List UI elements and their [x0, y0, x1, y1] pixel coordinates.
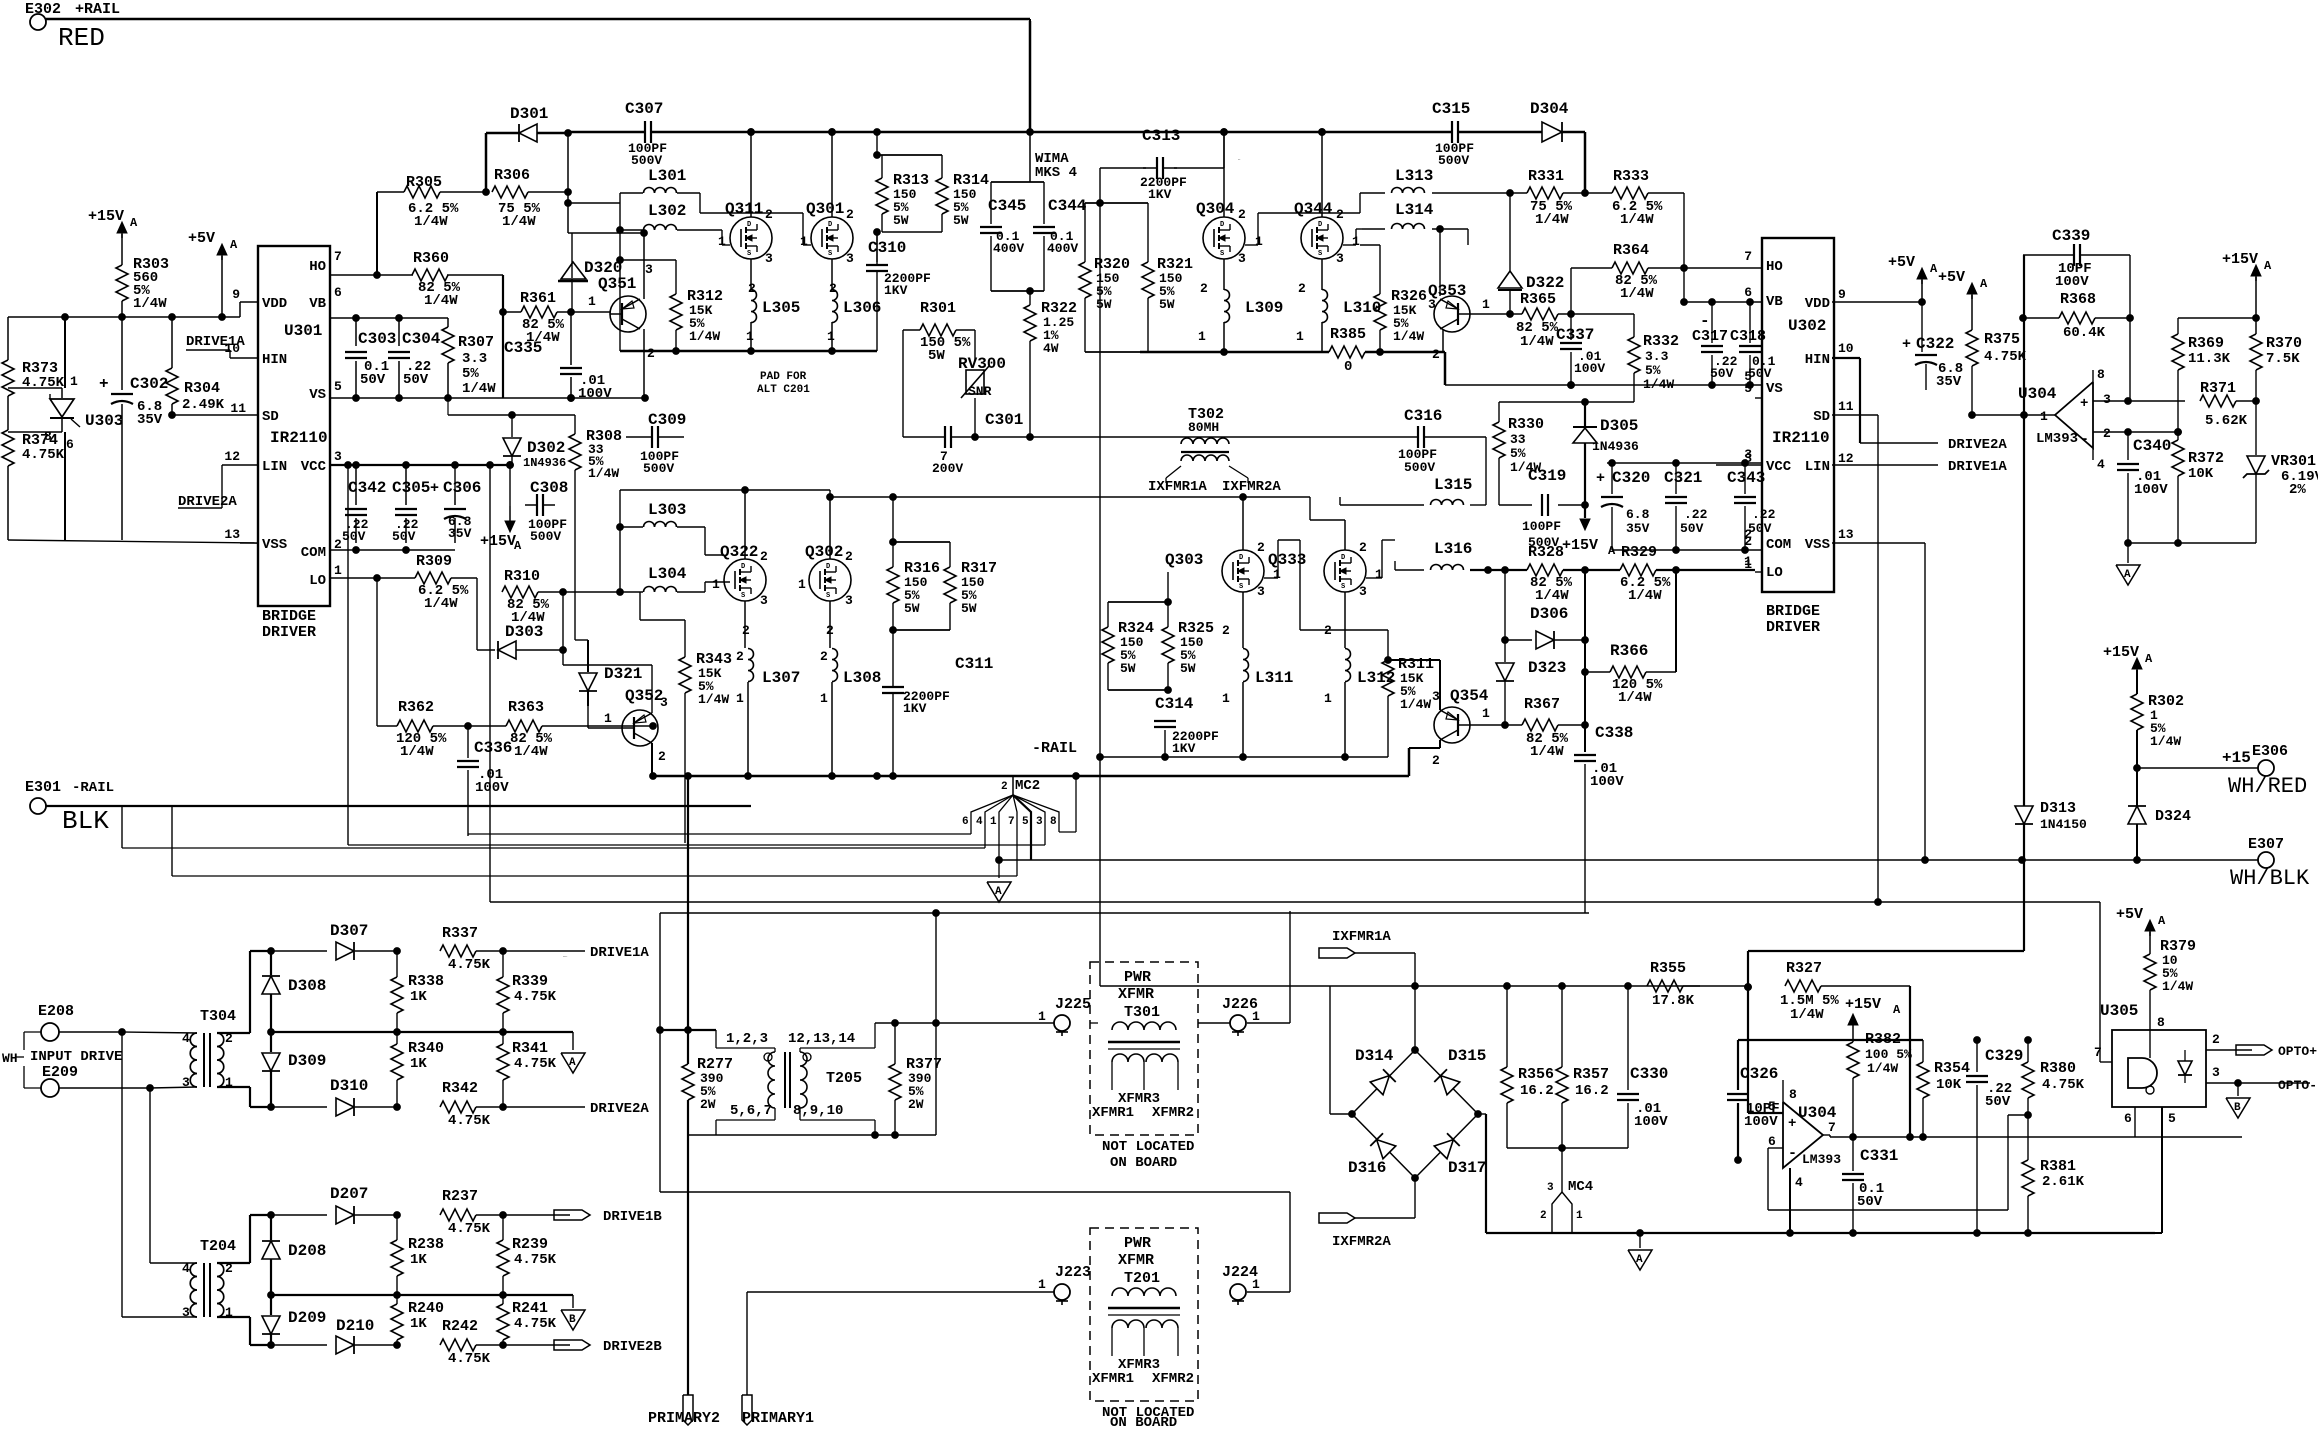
svg-text:L305: L305	[762, 299, 800, 317]
svg-text:MC2: MC2	[1015, 778, 1040, 794]
svg-text:1: 1	[1576, 1210, 1583, 1222]
svg-text:D321: D321	[604, 665, 642, 683]
svg-text:R306: R306	[494, 167, 530, 184]
svg-text:5: 5	[1022, 816, 1029, 828]
svg-text:3: 3	[645, 262, 653, 277]
svg-text:1/4W: 1/4W	[1530, 744, 1564, 760]
svg-text:C338: C338	[1595, 724, 1633, 742]
svg-text:C321: C321	[1664, 469, 1702, 487]
svg-text:11.3K: 11.3K	[2188, 351, 2231, 367]
svg-text:LIN: LIN	[262, 459, 287, 475]
svg-text:2: 2	[846, 207, 854, 222]
svg-text:R339: R339	[512, 973, 548, 990]
svg-text:50V: 50V	[1857, 1194, 1883, 1210]
svg-text:R363: R363	[508, 699, 544, 716]
svg-text:12: 12	[1838, 451, 1854, 466]
svg-text:D314: D314	[1355, 1047, 1394, 1065]
svg-text:R309: R309	[416, 553, 452, 570]
svg-text:R340: R340	[408, 1040, 444, 1057]
svg-text:5%: 5%	[1510, 446, 1526, 461]
svg-text:R238: R238	[408, 1236, 444, 1253]
svg-text:1: 1	[1324, 691, 1332, 706]
svg-text:R369: R369	[2188, 335, 2224, 352]
svg-text:OPTO+: OPTO+	[2278, 1044, 2317, 1059]
svg-text:D208: D208	[288, 1242, 326, 1260]
svg-text:1KV: 1KV	[903, 701, 927, 716]
svg-text:XFMR: XFMR	[1118, 986, 1154, 1003]
svg-text:HIN: HIN	[1805, 352, 1830, 368]
svg-text:35V: 35V	[137, 412, 163, 428]
svg-text:100V: 100V	[1744, 1114, 1778, 1130]
svg-text:1/4W: 1/4W	[424, 293, 458, 309]
svg-text:DRIVE1A: DRIVE1A	[186, 334, 245, 350]
svg-text:-: -	[1788, 1145, 1797, 1162]
svg-text:12: 12	[224, 449, 240, 464]
svg-text:+5V: +5V	[1938, 269, 1965, 286]
svg-text:D322: D322	[1526, 274, 1564, 292]
svg-text:R375: R375	[1984, 331, 2020, 348]
svg-text:1/4W: 1/4W	[424, 596, 458, 612]
svg-text:5W: 5W	[953, 213, 969, 228]
svg-text:+15V: +15V	[2103, 644, 2139, 661]
svg-text:R327: R327	[1786, 960, 1822, 977]
svg-text:4.75K: 4.75K	[514, 1316, 557, 1332]
svg-text:4.75K: 4.75K	[448, 957, 491, 973]
svg-text:R366: R366	[1610, 642, 1648, 660]
svg-text:1: 1	[800, 234, 808, 249]
svg-text:R331: R331	[1528, 168, 1564, 185]
svg-text:9: 9	[232, 287, 240, 302]
svg-text:2: 2	[748, 281, 756, 296]
svg-text:1/4W: 1/4W	[1400, 697, 1431, 712]
svg-text:+: +	[1788, 1116, 1796, 1132]
svg-text:50V: 50V	[342, 529, 366, 544]
svg-text:R337: R337	[442, 925, 478, 942]
svg-text:9: 9	[1838, 287, 1846, 302]
svg-text:1KV: 1KV	[1148, 187, 1172, 202]
svg-text:1K: 1K	[410, 1056, 427, 1072]
svg-text:-: -	[2080, 431, 2089, 448]
svg-text:10: 10	[1838, 341, 1854, 356]
svg-text:R380: R380	[2040, 1060, 2076, 1077]
svg-text:R333: R333	[1613, 168, 1649, 185]
svg-text:S: S	[826, 592, 830, 600]
svg-text:5W: 5W	[1120, 661, 1136, 676]
svg-text:XFMR1: XFMR1	[1092, 1371, 1134, 1387]
svg-text:6: 6	[334, 285, 342, 300]
svg-text:6: 6	[1768, 1134, 1776, 1149]
svg-text:E208: E208	[38, 1003, 74, 1020]
svg-text:C301: C301	[985, 411, 1023, 429]
svg-text:C314: C314	[1155, 695, 1194, 713]
svg-text:+15V: +15V	[1845, 996, 1881, 1013]
svg-text:L301: L301	[648, 167, 686, 185]
svg-text:2: 2	[1336, 207, 1344, 222]
svg-text:LIN: LIN	[1805, 459, 1830, 475]
svg-text:5: 5	[334, 379, 342, 394]
svg-text:NOT LOCATED: NOT LOCATED	[1102, 1139, 1194, 1155]
svg-text:L303: L303	[648, 501, 686, 519]
svg-text:7: 7	[2094, 1045, 2102, 1060]
svg-text:1/4W: 1/4W	[2150, 734, 2181, 749]
svg-text:50V: 50V	[360, 372, 386, 388]
svg-text:1KV: 1KV	[1172, 741, 1196, 756]
svg-text:R364: R364	[1613, 242, 1649, 259]
svg-text:3: 3	[660, 695, 668, 710]
svg-text:1/4W: 1/4W	[502, 214, 536, 230]
svg-text:B: B	[569, 1314, 576, 1326]
svg-text:5W: 5W	[961, 601, 977, 616]
svg-text:T301: T301	[1124, 1004, 1160, 1021]
svg-text:XFMR2: XFMR2	[1152, 1105, 1194, 1121]
svg-text:Q301: Q301	[806, 200, 844, 218]
svg-text:4: 4	[182, 1261, 190, 1276]
svg-text:S: S	[741, 592, 745, 600]
svg-text:D306: D306	[1530, 605, 1568, 623]
svg-text:+5V: +5V	[2116, 906, 2143, 923]
svg-text:IR2110: IR2110	[270, 429, 328, 447]
svg-text:R385: R385	[1330, 326, 1366, 343]
svg-text:1: 1	[820, 691, 828, 706]
svg-text:D323: D323	[1528, 659, 1566, 677]
svg-text:1K: 1K	[410, 1316, 427, 1332]
svg-text:+15V: +15V	[88, 208, 124, 225]
svg-text:E302: E302	[25, 1, 61, 18]
svg-text:R338: R338	[408, 973, 444, 990]
svg-text:ON BOARD: ON BOARD	[1110, 1415, 1177, 1426]
svg-text:C302: C302	[130, 375, 168, 393]
svg-text:2: 2	[1222, 623, 1230, 638]
svg-text:3: 3	[765, 251, 773, 266]
svg-text:1/4W: 1/4W	[689, 329, 720, 344]
svg-text:1/4W: 1/4W	[2162, 979, 2193, 994]
svg-text:2: 2	[760, 549, 768, 564]
svg-text:100V: 100V	[2055, 274, 2089, 290]
svg-text:A: A	[2264, 259, 2272, 273]
svg-text:+5V: +5V	[188, 230, 215, 247]
svg-text:BRIDGE: BRIDGE	[1766, 603, 1820, 620]
svg-text:7: 7	[1828, 1120, 1836, 1135]
svg-text:5.62K: 5.62K	[2205, 413, 2248, 429]
svg-text:5W: 5W	[1096, 297, 1112, 312]
svg-text:U301: U301	[284, 322, 322, 340]
svg-text:A: A	[1893, 1003, 1901, 1017]
svg-text:A: A	[230, 238, 238, 252]
svg-text:0: 0	[1344, 359, 1352, 375]
svg-text:8: 8	[2157, 1015, 2165, 1030]
svg-text:VCC: VCC	[301, 459, 327, 475]
svg-text:+15V: +15V	[480, 533, 516, 550]
svg-text:100V: 100V	[1574, 361, 1605, 376]
svg-text:4: 4	[182, 1031, 190, 1046]
svg-text:T201: T201	[1124, 1270, 1160, 1287]
svg-text:5W: 5W	[1180, 661, 1196, 676]
svg-text:100V: 100V	[1590, 774, 1624, 790]
svg-text:80MH: 80MH	[1188, 420, 1219, 435]
svg-text:HO: HO	[1766, 259, 1783, 275]
svg-text:D310: D310	[330, 1077, 368, 1095]
svg-text:LM393: LM393	[2036, 431, 2078, 447]
svg-text:50V: 50V	[1680, 521, 1704, 536]
svg-text:2: 2	[658, 749, 666, 764]
svg-text:D309: D309	[288, 1052, 326, 1070]
svg-text:+: +	[430, 480, 439, 497]
svg-text:D316: D316	[1348, 1159, 1386, 1177]
svg-text:PAD FOR: PAD FOR	[760, 371, 807, 383]
svg-text:3: 3	[760, 593, 768, 608]
svg-text:1/4W: 1/4W	[588, 466, 619, 481]
svg-text:MC4: MC4	[1568, 1179, 1593, 1195]
svg-text:1: 1	[1482, 706, 1490, 721]
svg-text:L313: L313	[1395, 167, 1433, 185]
svg-text:J223: J223	[1055, 1264, 1091, 1281]
svg-text:1KV: 1KV	[884, 283, 908, 298]
svg-text:1: 1	[712, 577, 720, 592]
svg-text:C336: C336	[474, 739, 512, 757]
svg-text:C306: C306	[443, 479, 481, 497]
svg-text:C307: C307	[625, 100, 663, 118]
svg-text:LO: LO	[1766, 565, 1783, 581]
svg-text:D324: D324	[2155, 808, 2191, 825]
svg-text:6: 6	[2124, 1111, 2132, 1126]
svg-text:1: 1	[1255, 234, 1263, 249]
svg-text:10K: 10K	[1936, 1077, 1962, 1093]
svg-text:1/4W: 1/4W	[462, 381, 496, 397]
svg-text:1,2,3: 1,2,3	[726, 1031, 768, 1047]
svg-text:3.3: 3.3	[462, 351, 487, 367]
svg-text:D: D	[1239, 554, 1243, 562]
svg-text:D210: D210	[336, 1317, 374, 1335]
svg-text:1/4W: 1/4W	[400, 744, 434, 760]
svg-text:Q304: Q304	[1196, 200, 1235, 218]
svg-text:C320: C320	[1612, 469, 1650, 487]
svg-text:500V: 500V	[1404, 460, 1435, 475]
svg-text:8: 8	[2097, 367, 2105, 382]
svg-text:D303: D303	[505, 623, 543, 641]
svg-text:C308: C308	[530, 479, 568, 497]
svg-text:L302: L302	[648, 202, 686, 220]
svg-text:2.49K: 2.49K	[182, 397, 225, 413]
svg-text:33: 33	[1510, 432, 1526, 447]
svg-text:Q302: Q302	[805, 543, 843, 561]
svg-text:Q351: Q351	[598, 275, 636, 293]
svg-text:11: 11	[1838, 399, 1854, 414]
svg-text:7: 7	[1008, 816, 1015, 828]
svg-text:400V: 400V	[1047, 241, 1078, 256]
svg-text:DRIVER: DRIVER	[1766, 619, 1820, 636]
svg-text:1/4W: 1/4W	[1628, 588, 1662, 604]
svg-text:R301: R301	[920, 300, 956, 317]
svg-text:C303: C303	[358, 330, 396, 348]
svg-text:R330: R330	[1508, 416, 1544, 433]
svg-text:R357: R357	[1573, 1066, 1609, 1083]
svg-text:Q311: Q311	[725, 200, 763, 218]
svg-text:D: D	[1220, 221, 1224, 229]
svg-text:6: 6	[66, 437, 74, 452]
svg-text:C343: C343	[1727, 469, 1765, 487]
svg-text:-RAIL: -RAIL	[1032, 740, 1077, 757]
svg-text:50V: 50V	[392, 529, 416, 544]
svg-text:R310: R310	[504, 568, 540, 585]
svg-text:XFMR: XFMR	[1118, 1252, 1154, 1269]
svg-text:R328: R328	[1528, 544, 1564, 561]
svg-text:Q352: Q352	[625, 687, 663, 705]
svg-text:L308: L308	[843, 669, 881, 687]
svg-text:R305: R305	[406, 174, 442, 191]
svg-text:ON BOARD: ON BOARD	[1110, 1155, 1177, 1171]
svg-text:S: S	[1341, 583, 1345, 591]
svg-text:D: D	[826, 563, 830, 571]
svg-text:35V: 35V	[448, 526, 472, 541]
svg-text:R372: R372	[2188, 450, 2224, 467]
svg-text:4.75K: 4.75K	[2042, 1077, 2085, 1093]
svg-text:1: 1	[1198, 329, 1206, 344]
svg-text:1/4W: 1/4W	[1535, 588, 1569, 604]
svg-text:+: +	[2080, 396, 2088, 412]
svg-text:1: 1	[1038, 1009, 1046, 1024]
svg-text:IXFMR1A: IXFMR1A	[1148, 479, 1207, 495]
svg-text:6.8: 6.8	[1626, 507, 1650, 522]
svg-text:SD: SD	[1813, 409, 1830, 425]
svg-text:2: 2	[1238, 207, 1246, 222]
svg-text:L314: L314	[1395, 201, 1434, 219]
svg-text:R307: R307	[458, 334, 494, 351]
svg-text:1: 1	[1273, 567, 1281, 582]
svg-text:R362: R362	[398, 699, 434, 716]
svg-text:4.75K: 4.75K	[514, 1056, 557, 1072]
svg-text:1: 1	[1482, 297, 1490, 312]
svg-text:R381: R381	[2040, 1158, 2076, 1175]
svg-text:1: 1	[604, 711, 612, 726]
svg-text:LM393: LM393	[1802, 1152, 1841, 1167]
svg-text:3: 3	[2103, 392, 2111, 407]
svg-text:+5V: +5V	[1888, 254, 1915, 271]
svg-text:C311: C311	[955, 655, 993, 673]
svg-text:2: 2	[2103, 426, 2111, 441]
svg-text:3: 3	[2212, 1065, 2220, 1080]
svg-text:1: 1	[1744, 557, 1752, 572]
svg-text:1: 1	[746, 329, 754, 344]
svg-text:500V: 500V	[1438, 153, 1469, 168]
svg-text:4.75K: 4.75K	[448, 1351, 491, 1367]
svg-text:E306: E306	[2252, 743, 2288, 760]
svg-text:R341: R341	[512, 1040, 548, 1057]
svg-text:1/4W: 1/4W	[414, 214, 448, 230]
svg-text:MKS 4: MKS 4	[1035, 165, 1077, 181]
svg-text:R361: R361	[520, 290, 556, 307]
svg-text:2: 2	[829, 281, 837, 296]
svg-text:L306: L306	[843, 299, 881, 317]
svg-text:E209: E209	[42, 1064, 78, 1081]
svg-text:2: 2	[736, 649, 744, 664]
svg-text:5W: 5W	[904, 601, 920, 616]
svg-text:Q303: Q303	[1165, 551, 1203, 569]
svg-text:5W: 5W	[928, 348, 945, 364]
svg-text:DRIVE2B: DRIVE2B	[603, 1339, 662, 1355]
svg-text:R355: R355	[1650, 960, 1686, 977]
svg-text:D304: D304	[1530, 100, 1569, 118]
svg-text:4: 4	[976, 816, 983, 828]
svg-text:4.75K: 4.75K	[22, 447, 65, 463]
svg-text:COM: COM	[1766, 537, 1791, 553]
svg-text:C339: C339	[2052, 227, 2090, 245]
svg-text:DRIVE1A: DRIVE1A	[1948, 459, 2007, 475]
svg-text:1/4W: 1/4W	[514, 744, 548, 760]
svg-text:4.75K: 4.75K	[514, 989, 557, 1005]
svg-text:1: 1	[1252, 1009, 1260, 1024]
svg-text:T205: T205	[826, 1070, 862, 1087]
svg-text:2: 2	[1744, 527, 1752, 542]
svg-text:3: 3	[1238, 251, 1246, 266]
svg-text:50V: 50V	[1710, 366, 1734, 381]
svg-text:.22: .22	[1684, 507, 1708, 522]
svg-text:-RAIL: -RAIL	[72, 780, 114, 796]
svg-text:A: A	[995, 886, 1002, 898]
svg-text:VCC: VCC	[1766, 459, 1792, 475]
svg-text:C310: C310	[868, 239, 906, 257]
svg-text:5: 5	[1768, 1099, 1776, 1114]
svg-text:6: 6	[962, 816, 969, 828]
svg-text:1: 1	[736, 691, 744, 706]
svg-text:2: 2	[765, 207, 773, 222]
svg-text:INPUT DRIVE: INPUT DRIVE	[30, 1049, 122, 1065]
svg-text:D209: D209	[288, 1309, 326, 1327]
svg-text:R371: R371	[2200, 380, 2236, 397]
svg-text:U303: U303	[85, 412, 123, 430]
svg-text:8: 8	[44, 429, 52, 444]
svg-text:A: A	[2158, 914, 2166, 928]
svg-text:WH: WH	[2, 1051, 18, 1066]
svg-text:PRIMARY1: PRIMARY1	[742, 1410, 814, 1426]
svg-text:3: 3	[1036, 816, 1043, 828]
svg-text:C313: C313	[1142, 127, 1180, 145]
svg-text:Q322: Q322	[720, 543, 758, 561]
svg-text:1/4W: 1/4W	[1535, 212, 1569, 228]
svg-text:U304: U304	[2018, 385, 2057, 403]
svg-text:2: 2	[647, 346, 655, 361]
svg-text:+15: +15	[2222, 749, 2251, 767]
svg-text:3: 3	[846, 251, 854, 266]
svg-text:T204: T204	[200, 1238, 236, 1255]
svg-text:8: 8	[1050, 816, 1057, 828]
svg-text:4W: 4W	[1043, 341, 1059, 356]
svg-text:11: 11	[230, 401, 246, 416]
svg-text:A: A	[2124, 569, 2131, 581]
svg-text:4.75K: 4.75K	[1984, 349, 2027, 365]
svg-text:XFMR1: XFMR1	[1092, 1105, 1134, 1121]
svg-text:L315: L315	[1434, 476, 1472, 494]
svg-text:2.61K: 2.61K	[2042, 1174, 2085, 1190]
svg-text:2%: 2%	[2289, 482, 2306, 498]
svg-text:1K: 1K	[410, 1252, 427, 1268]
svg-text:1N4936: 1N4936	[1592, 439, 1639, 454]
svg-text:D: D	[747, 221, 751, 229]
svg-text:A: A	[1930, 262, 1938, 276]
svg-text:R242: R242	[442, 1318, 478, 1335]
svg-text:SD: SD	[262, 409, 279, 425]
svg-text:5W: 5W	[1159, 297, 1175, 312]
svg-text:WH/BLK: WH/BLK	[2230, 866, 2310, 891]
svg-text:35V: 35V	[1936, 374, 1962, 390]
svg-text:100V: 100V	[578, 386, 612, 402]
svg-text:RED: RED	[58, 23, 105, 53]
svg-text:HO: HO	[309, 259, 326, 275]
svg-text:1/4W: 1/4W	[1867, 1061, 1898, 1076]
svg-text:R329: R329	[1621, 544, 1657, 561]
svg-text:12,13,14: 12,13,14	[788, 1031, 855, 1047]
svg-text:6: 6	[1744, 285, 1752, 300]
svg-text:C305: C305	[392, 479, 430, 497]
